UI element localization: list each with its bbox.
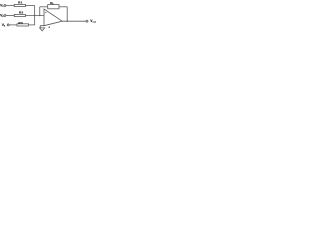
op-amp plus sign (48, 26, 50, 28)
wire feedback vertical right (66, 7, 68, 21)
svg-text:Vout: Vout (90, 19, 96, 24)
wire summing bus vertical (34, 6, 36, 25)
op-amp minus sign (45, 12, 47, 14)
wire feedback top right (59, 6, 67, 8)
wire R2 to op-amp inverting input (25, 15, 44, 17)
resistor R3 (17, 24, 28, 26)
svg-text:V3: V3 (2, 23, 6, 28)
terminal Vout (86, 20, 88, 22)
resistor R2 (14, 14, 25, 16)
svg-text:Rf: Rf (50, 1, 53, 6)
wire V1 to R1 (6, 5, 14, 7)
terminal T3 (7, 24, 9, 26)
resistor R1 (14, 4, 25, 6)
wire R3 to bus (28, 24, 34, 26)
terminal T1 (4, 5, 6, 7)
junction feedback/output (67, 21, 68, 22)
wire feedback top left (40, 6, 48, 8)
junction bus/row2 (34, 15, 35, 16)
terminal T2 (4, 15, 6, 17)
wire non-inverting input to ground (40, 26, 44, 28)
wire feedback vertical left (39, 7, 41, 16)
wire op-amp output (62, 20, 86, 22)
svg-text:R2: R2 (19, 10, 24, 14)
op-amp U1 (44, 9, 62, 26)
wire V3 to R3 (9, 24, 17, 26)
wire V2 to R2 (6, 15, 14, 17)
wire R1 to bus (25, 5, 34, 7)
svg-text:R1: R1 (18, 1, 23, 5)
resistor Rf (48, 5, 59, 9)
junction feedback tap (39, 15, 40, 16)
ground (40, 28, 45, 31)
svg-text:R3: R3 (18, 21, 23, 25)
